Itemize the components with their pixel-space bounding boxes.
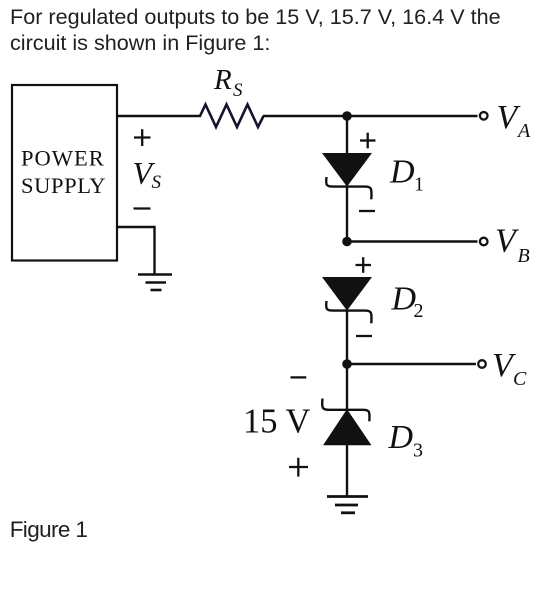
node C junction dot (342, 359, 352, 369)
wire box bottom to ground (117, 227, 155, 274)
terminal VA (480, 99, 531, 142)
terminal VB (480, 223, 530, 268)
svg-text:15 V: 15 V (243, 403, 311, 441)
Vs plus sign (134, 129, 151, 146)
svg-text:3: 3 (413, 440, 423, 462)
svg-text:1: 1 (414, 174, 424, 196)
svg-text:2: 2 (414, 300, 424, 322)
ground (power supply) (138, 275, 172, 291)
zener diode D1 (323, 154, 424, 200)
svg-text:SUPPLY: SUPPLY (21, 173, 106, 198)
wire node C to D3 cathode (346, 364, 348, 411)
resistor RS (200, 64, 264, 127)
svg-text:D: D (389, 154, 415, 191)
Vs label (133, 155, 162, 193)
wire D2 cathode to node C (346, 310, 348, 364)
svg-text:C: C (513, 368, 527, 390)
minus sign (D2) (356, 335, 372, 337)
minus sign (D1) (359, 210, 375, 212)
wire node C to VC terminal (347, 363, 476, 365)
svg-text:B: B (518, 245, 530, 267)
svg-text:A: A (516, 120, 531, 142)
svg-text:S: S (152, 172, 162, 193)
svg-text:R: R (213, 64, 232, 96)
wire node A to VA terminal (347, 115, 478, 117)
svg-text:POWER: POWER (21, 146, 105, 171)
Vs minus sign (134, 207, 151, 209)
node A junction dot (342, 111, 352, 121)
zener diode D3 (322, 399, 423, 462)
plus sign (D3) (289, 458, 308, 477)
terminal VC (478, 347, 527, 390)
svg-text:V: V (495, 223, 520, 260)
wire node B to VB terminal (347, 240, 478, 242)
wire box to resistor (117, 115, 201, 117)
node B junction dot (342, 237, 352, 247)
zener diode D2 (323, 278, 424, 324)
power supply box (12, 85, 117, 261)
minus sign (D3) (291, 376, 307, 378)
ground (D3) (327, 497, 368, 513)
plus sign (D2) (356, 257, 372, 273)
svg-text:D: D (388, 419, 414, 456)
wire node A to D1 anode (346, 116, 348, 154)
wire resistor to node A (263, 115, 347, 117)
15 V value label (243, 403, 311, 441)
plus sign (D1) (360, 133, 376, 149)
svg-text:S: S (233, 80, 243, 101)
wire D3 anode to ground (346, 444, 348, 496)
wire D1 cathode to node B (346, 186, 348, 242)
